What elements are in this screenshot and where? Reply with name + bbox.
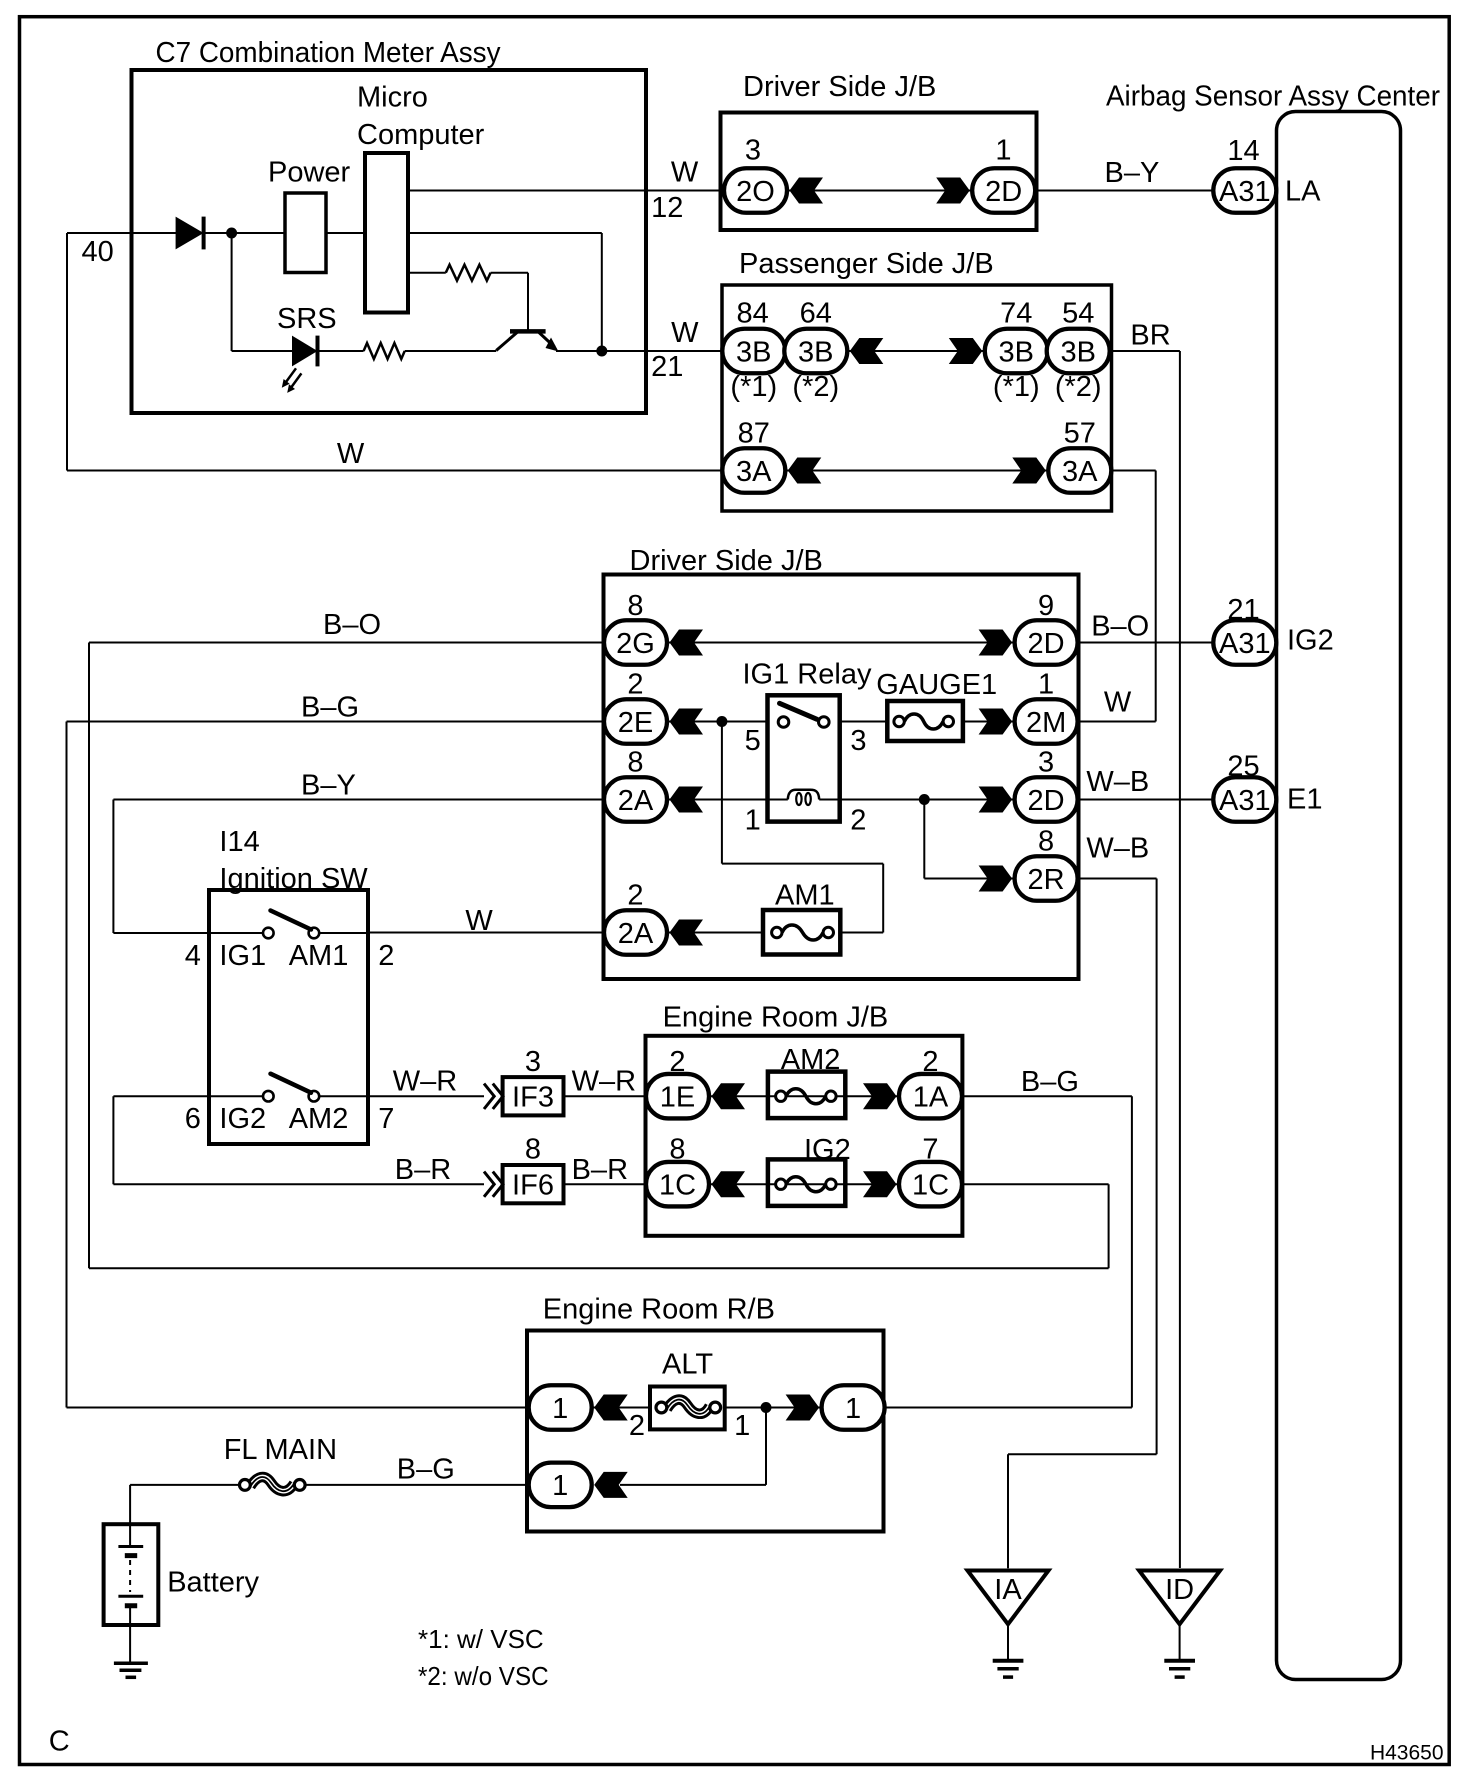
connector IF3 chevrons	[484, 1084, 503, 1109]
box Passenger Side J/B	[722, 285, 1112, 511]
resistor R1 (base)	[446, 265, 491, 281]
svg-text:I14: I14	[219, 826, 259, 858]
connector terminal 1C at (677.5,1184.2)	[646, 1162, 709, 1207]
svg-text:2D: 2D	[1028, 628, 1065, 660]
connector terminal 3B at (1078.2,351)	[1047, 329, 1110, 374]
svg-text:2: 2	[627, 879, 643, 911]
arrow into 1 (R/B top)	[594, 1395, 628, 1421]
svg-text:3: 3	[1038, 747, 1054, 779]
box Micro Computer	[365, 153, 408, 313]
svg-text:4: 4	[185, 940, 201, 972]
wire inside ignition SW	[209, 933, 368, 1096]
svg-text:54: 54	[1062, 298, 1094, 330]
shield connector ID	[1139, 1571, 1220, 1625]
arrow into 3A(57)	[1012, 458, 1046, 484]
wire B-O from 2G to Engine Room J/B 1C(7)	[89, 643, 1109, 1269]
connector terminal 2O at (755.5,190.5)	[724, 168, 787, 213]
switch IG2/AM2	[263, 1091, 274, 1102]
svg-text:3: 3	[525, 1046, 541, 1078]
svg-text:2O: 2O	[736, 176, 775, 208]
relay contact	[778, 717, 789, 728]
svg-text:9: 9	[1038, 590, 1054, 622]
svg-text:2: 2	[378, 940, 394, 972]
svg-text:3A: 3A	[1062, 456, 1098, 488]
svg-text:Engine Room J/B: Engine Room J/B	[663, 1002, 889, 1034]
svg-text:1: 1	[995, 135, 1011, 167]
wire W-R ignition SW AM2 to IF3	[368, 1095, 484, 1097]
shield connector IA	[968, 1571, 1049, 1625]
wire 40 down-left to 3A(87)	[67, 233, 723, 471]
svg-text:5: 5	[745, 725, 761, 757]
svg-text:1: 1	[1038, 669, 1054, 701]
svg-text:*2: w/o VSC: *2: w/o VSC	[418, 1661, 549, 1691]
connector terminal 2A at (635.5,932.5)	[604, 910, 667, 955]
wire 1C(7) exit	[962, 1183, 1109, 1185]
ground (ID)	[1179, 1624, 1181, 1661]
svg-text:2: 2	[922, 1046, 938, 1078]
svg-text:A31: A31	[1219, 785, 1271, 817]
transistor Q1	[510, 329, 546, 334]
arrow into 3B(74)	[949, 338, 983, 364]
connector terminal 2D at (1046.1,642.5)	[1015, 620, 1078, 665]
svg-text:74: 74	[1000, 298, 1032, 330]
svg-text:6: 6	[185, 1103, 201, 1135]
arrow into 2M	[979, 709, 1013, 735]
svg-text:2: 2	[627, 669, 643, 701]
box Driver Side J/B (top)	[721, 113, 1037, 231]
connector terminal 2M at (1046.1,721.5)	[1015, 699, 1078, 744]
box Engine Room R/B	[527, 1331, 884, 1532]
wire W from Micro Computer to 2O (meter pin 12)	[408, 190, 723, 192]
fuse AM1	[763, 910, 840, 955]
wire 2G to 2D inside Driver Side J/B	[667, 642, 1015, 644]
wire 3B to 3B inside Passenger J/B	[845, 350, 987, 352]
svg-text:14: 14	[1227, 135, 1259, 167]
svg-text:84: 84	[736, 298, 768, 330]
svg-text:2G: 2G	[616, 628, 655, 660]
svg-text:1C: 1C	[659, 1170, 696, 1202]
arrow into 3B(64)	[850, 338, 884, 364]
connector terminal 2E at (635.5,721.5)	[604, 699, 667, 744]
connector terminal 2D at (1046.1,799.5)	[1015, 777, 1078, 822]
box I14 Ignition SW	[209, 890, 368, 1144]
node junction at meter pin 21	[596, 346, 607, 357]
svg-text:H43650: H43650	[1370, 1742, 1444, 1765]
arrow into 1 (R/B right)	[786, 1395, 820, 1421]
svg-text:21: 21	[651, 351, 683, 383]
connector IF6 chevrons	[484, 1172, 503, 1197]
wire ALT branch to lower 1	[620, 1408, 766, 1485]
svg-text:(*2): (*2)	[1055, 371, 1102, 403]
svg-text:2M: 2M	[1026, 707, 1066, 739]
box Power supply	[285, 193, 326, 273]
wire 1E to 1A through AM2 fuse	[709, 1095, 899, 1097]
svg-text:Ignition SW: Ignition SW	[219, 863, 368, 895]
svg-text:21: 21	[1227, 594, 1259, 626]
wire W from ignition SW AM1 to 2A(2)	[368, 932, 763, 934]
arrow into 2D(9)	[979, 630, 1013, 656]
svg-text:C: C	[49, 1725, 70, 1757]
wire micro computer to transistor base	[408, 273, 528, 330]
svg-text:FL MAIN: FL MAIN	[224, 1434, 337, 1466]
svg-text:8: 8	[669, 1134, 685, 1166]
connector terminal 3A at (1079.8,470.5)	[1048, 448, 1111, 493]
svg-text:3A: 3A	[736, 456, 772, 488]
svg-text:2D: 2D	[1028, 785, 1065, 817]
svg-text:W: W	[1104, 687, 1132, 719]
svg-text:*1: w/ VSC: *1: w/ VSC	[418, 1624, 544, 1654]
svg-text:ALT: ALT	[662, 1348, 713, 1380]
svg-text:8: 8	[525, 1134, 541, 1166]
arrow into 1E	[712, 1083, 746, 1109]
svg-text:A31: A31	[1219, 176, 1271, 208]
svg-text:Driver Side J/B: Driver Side J/B	[630, 545, 823, 577]
svg-text:3: 3	[745, 135, 761, 167]
wire B-R ignition SW IG2 to IF6	[113, 1096, 484, 1184]
svg-text:B–R: B–R	[395, 1154, 451, 1186]
svg-text:8: 8	[627, 747, 643, 779]
svg-text:ID: ID	[1165, 1574, 1194, 1606]
svg-text:(*2): (*2)	[792, 371, 839, 403]
svg-text:B–G: B–G	[301, 692, 359, 724]
box Driver Side J/B (center)	[604, 575, 1079, 980]
arrow into 2A(8)	[670, 787, 704, 813]
arrow into 2E	[670, 709, 704, 735]
svg-text:1: 1	[552, 1470, 568, 1502]
node junction after ALT	[761, 1402, 772, 1413]
arrow into 1A	[863, 1083, 897, 1109]
connector terminal 3B at (1016.3,351)	[985, 329, 1048, 374]
arrow into 1 (R/B bottom)	[594, 1472, 628, 1498]
svg-text:12: 12	[651, 192, 683, 224]
svg-text:Driver Side J/B: Driver Side J/B	[743, 71, 936, 103]
svg-text:W: W	[465, 905, 493, 937]
ground (battery)	[114, 1662, 148, 1666]
svg-text:1: 1	[845, 1393, 861, 1425]
svg-text:B–G: B–G	[1021, 1066, 1079, 1098]
connector terminal 1A at (930.5,1096.2)	[899, 1074, 962, 1119]
arrow into 1C(8)	[712, 1171, 746, 1197]
wire AM1 feedback to 2E node	[722, 722, 883, 933]
svg-text:(*1): (*1)	[993, 371, 1040, 403]
wire W-R IF3 to 1E	[564, 1095, 647, 1097]
wire W-B 2D(3) to A31(25)	[1078, 799, 1214, 801]
arrow into 2A(2)	[670, 920, 704, 946]
svg-text:3B: 3B	[798, 336, 833, 368]
connector terminal A31 at (1244.8,642.5)	[1213, 620, 1276, 665]
svg-text:2: 2	[629, 1410, 645, 1442]
wire SRS branch	[232, 233, 723, 351]
svg-text:87: 87	[738, 417, 770, 449]
svg-text:IG1: IG1	[219, 940, 266, 972]
wire W-B from 2R to IA	[1008, 879, 1157, 1569]
svg-text:IG2: IG2	[219, 1103, 266, 1135]
wire B-R IF6 to 1C	[564, 1183, 647, 1185]
connector terminal 3B at (815.8,351)	[784, 329, 847, 374]
svg-text:SRS: SRS	[277, 303, 337, 335]
svg-text:B–O: B–O	[1091, 611, 1149, 643]
connector terminal 3B at (753.8,351)	[722, 329, 785, 374]
svg-text:C7 Combination Meter Assy: C7 Combination Meter Assy	[156, 37, 501, 69]
wire B-G battery to FL MAIN to R/B	[130, 1485, 529, 1547]
connector terminal 2R at (1046.1,878.5)	[1015, 856, 1078, 901]
node junction on 2D(3) wire	[919, 794, 930, 805]
svg-text:AM2: AM2	[289, 1103, 349, 1135]
arrow into 2G	[670, 630, 704, 656]
svg-text:3B: 3B	[1060, 336, 1095, 368]
svg-text:IG1 Relay: IG1 Relay	[743, 659, 872, 691]
svg-text:8: 8	[1038, 826, 1054, 858]
svg-text:A31: A31	[1219, 628, 1271, 660]
svg-text:B–Y: B–Y	[1105, 157, 1160, 189]
svg-text:1E: 1E	[660, 1082, 695, 1114]
svg-text:IG2: IG2	[804, 1134, 851, 1166]
svg-text:1: 1	[734, 1410, 750, 1442]
connector terminal A31 at (1244.8,190.5)	[1213, 168, 1276, 213]
svg-text:Engine Room R/B: Engine Room R/B	[543, 1293, 775, 1325]
svg-text:B–Y: B–Y	[301, 770, 356, 802]
connector terminal 1 at (560.2,1484.9)	[529, 1463, 592, 1508]
fuse GAUGE1	[887, 701, 963, 741]
LED arrows	[286, 368, 301, 387]
svg-text:7: 7	[922, 1134, 938, 1166]
arrow into 2D(3)	[979, 787, 1013, 813]
LED SRS warning light	[292, 336, 318, 367]
wire branch to 2R	[924, 800, 1015, 879]
fuse IG2	[768, 1159, 845, 1206]
svg-text:IF6: IF6	[512, 1169, 554, 1201]
node junction on 2E wire	[716, 716, 727, 727]
fuse AM2	[768, 1072, 845, 1119]
resistor R2 (SRS)	[364, 343, 405, 359]
svg-text:Computer: Computer	[357, 119, 485, 151]
svg-text:BR: BR	[1130, 320, 1170, 352]
svg-text:W: W	[337, 438, 365, 470]
wire 2A(8) through relay coil to 2D(3)	[667, 799, 1015, 801]
wire B-O 2D(9) to A31(21)	[1078, 642, 1214, 644]
svg-text:1: 1	[552, 1393, 568, 1425]
svg-text:1: 1	[745, 805, 761, 837]
svg-text:AM2: AM2	[781, 1044, 841, 1076]
wire B-G from 1A to Engine Room R/B	[885, 1096, 1132, 1407]
connector IF6	[503, 1165, 564, 1203]
relay IG1 Relay	[768, 695, 840, 821]
wire battery negative to ground	[129, 1605, 131, 1663]
svg-text:W–R: W–R	[393, 1066, 457, 1098]
battery	[104, 1524, 159, 1625]
svg-text:LA: LA	[1285, 175, 1321, 207]
connector terminal 3A at (753.8,470.5)	[722, 448, 785, 493]
svg-text:GAUGE1: GAUGE1	[876, 669, 997, 701]
svg-text:3B: 3B	[999, 336, 1034, 368]
wire 2E to IG1 relay to GAUGE1 to 2M	[667, 721, 1015, 723]
svg-text:64: 64	[800, 298, 832, 330]
arrow into 3A(87)	[788, 458, 822, 484]
connector terminal A31 at (1244.8,799.5)	[1213, 777, 1276, 822]
switch IG1/AM1	[263, 928, 274, 939]
wire inside Engine Room R/B top row	[592, 1407, 822, 1409]
svg-text:7: 7	[378, 1103, 394, 1135]
ground (IA)	[1007, 1624, 1009, 1661]
box C7 Combination Meter Assy	[132, 70, 647, 413]
connector terminal 2G at (635.5,642.5)	[604, 620, 667, 665]
svg-text:1A: 1A	[913, 1082, 949, 1114]
svg-text:B–G: B–G	[397, 1453, 455, 1485]
wire B-Y from 2A(8) to ignition SW IG1	[113, 800, 604, 934]
svg-text:AM1: AM1	[775, 880, 835, 912]
svg-text:3: 3	[850, 725, 866, 757]
arrow into 2R	[979, 866, 1013, 892]
svg-text:IA: IA	[994, 1574, 1022, 1606]
svg-text:2A: 2A	[618, 785, 654, 817]
svg-text:2R: 2R	[1028, 864, 1065, 896]
arrow into 2O	[790, 178, 824, 204]
wire battery feed 40 into C7	[67, 233, 602, 351]
svg-text:2D: 2D	[985, 176, 1022, 208]
svg-text:2: 2	[850, 805, 866, 837]
svg-text:W: W	[671, 317, 699, 349]
fusible link ALT	[650, 1387, 725, 1430]
svg-text:57: 57	[1064, 417, 1096, 449]
svg-text:Airbag Sensor Assy Center: Airbag Sensor Assy Center	[1106, 81, 1440, 113]
connector shell Airbag Sensor Assy Center	[1277, 112, 1401, 1680]
connector terminal 2A at (635.5,799.5)	[604, 777, 667, 822]
wire 1C to 1C through IG2 fuse	[709, 1183, 899, 1185]
svg-text:AM1: AM1	[289, 940, 349, 972]
svg-text:W–R: W–R	[572, 1066, 636, 1098]
relay coil	[788, 790, 819, 800]
svg-text:Battery: Battery	[167, 1567, 259, 1599]
svg-text:2: 2	[669, 1046, 685, 1078]
connector terminal 1E at (677.5,1096.2)	[646, 1074, 709, 1119]
svg-text:1C: 1C	[912, 1170, 949, 1202]
connector terminal 1C at (930.5,1184.2)	[899, 1162, 962, 1207]
svg-text:E1: E1	[1287, 784, 1322, 816]
svg-text:IG2: IG2	[1287, 625, 1334, 657]
connector IF3	[503, 1077, 564, 1115]
arrow into 2D (top)	[936, 178, 970, 204]
svg-text:IF3: IF3	[512, 1081, 554, 1113]
connector terminal 1 at (560.2,1407.5)	[529, 1385, 592, 1430]
svg-text:(*1): (*1)	[730, 371, 777, 403]
svg-text:40: 40	[82, 236, 114, 268]
wire B-G from 2E to Engine Room R/B	[67, 722, 605, 1408]
svg-text:B–R: B–R	[572, 1154, 628, 1186]
svg-text:2E: 2E	[618, 707, 653, 739]
svg-text:B–O: B–O	[323, 609, 381, 641]
wire inside Driver Side J/B top	[785, 190, 974, 192]
wire W from 3A(57) to 2M	[1078, 471, 1156, 722]
svg-text:Passenger Side J/B: Passenger Side J/B	[739, 248, 994, 280]
connector terminal 1 at (853.1,1407.5)	[822, 1385, 885, 1430]
node junction after diode	[226, 228, 237, 239]
svg-text:W–B: W–B	[1086, 766, 1149, 798]
svg-text:8: 8	[627, 590, 643, 622]
wire 3A to 3A inside Passenger J/B	[785, 470, 1050, 472]
svg-text:Power: Power	[268, 157, 351, 189]
svg-text:W–B: W–B	[1086, 833, 1149, 865]
wire BR from 3B(54) to ID	[1108, 351, 1180, 1568]
connector terminal 2D at (1003.7,190.5)	[972, 168, 1035, 213]
box Engine Room J/B	[646, 1036, 963, 1236]
svg-text:25: 25	[1227, 750, 1259, 782]
arrow into 1C(7)	[863, 1171, 897, 1197]
wire B-Y 2D to A31(14)	[1035, 190, 1214, 192]
svg-text:3B: 3B	[736, 336, 771, 368]
diode D1	[176, 217, 204, 250]
svg-text:2A: 2A	[618, 918, 654, 950]
svg-text:Micro: Micro	[357, 82, 428, 114]
svg-text:W: W	[671, 157, 699, 189]
